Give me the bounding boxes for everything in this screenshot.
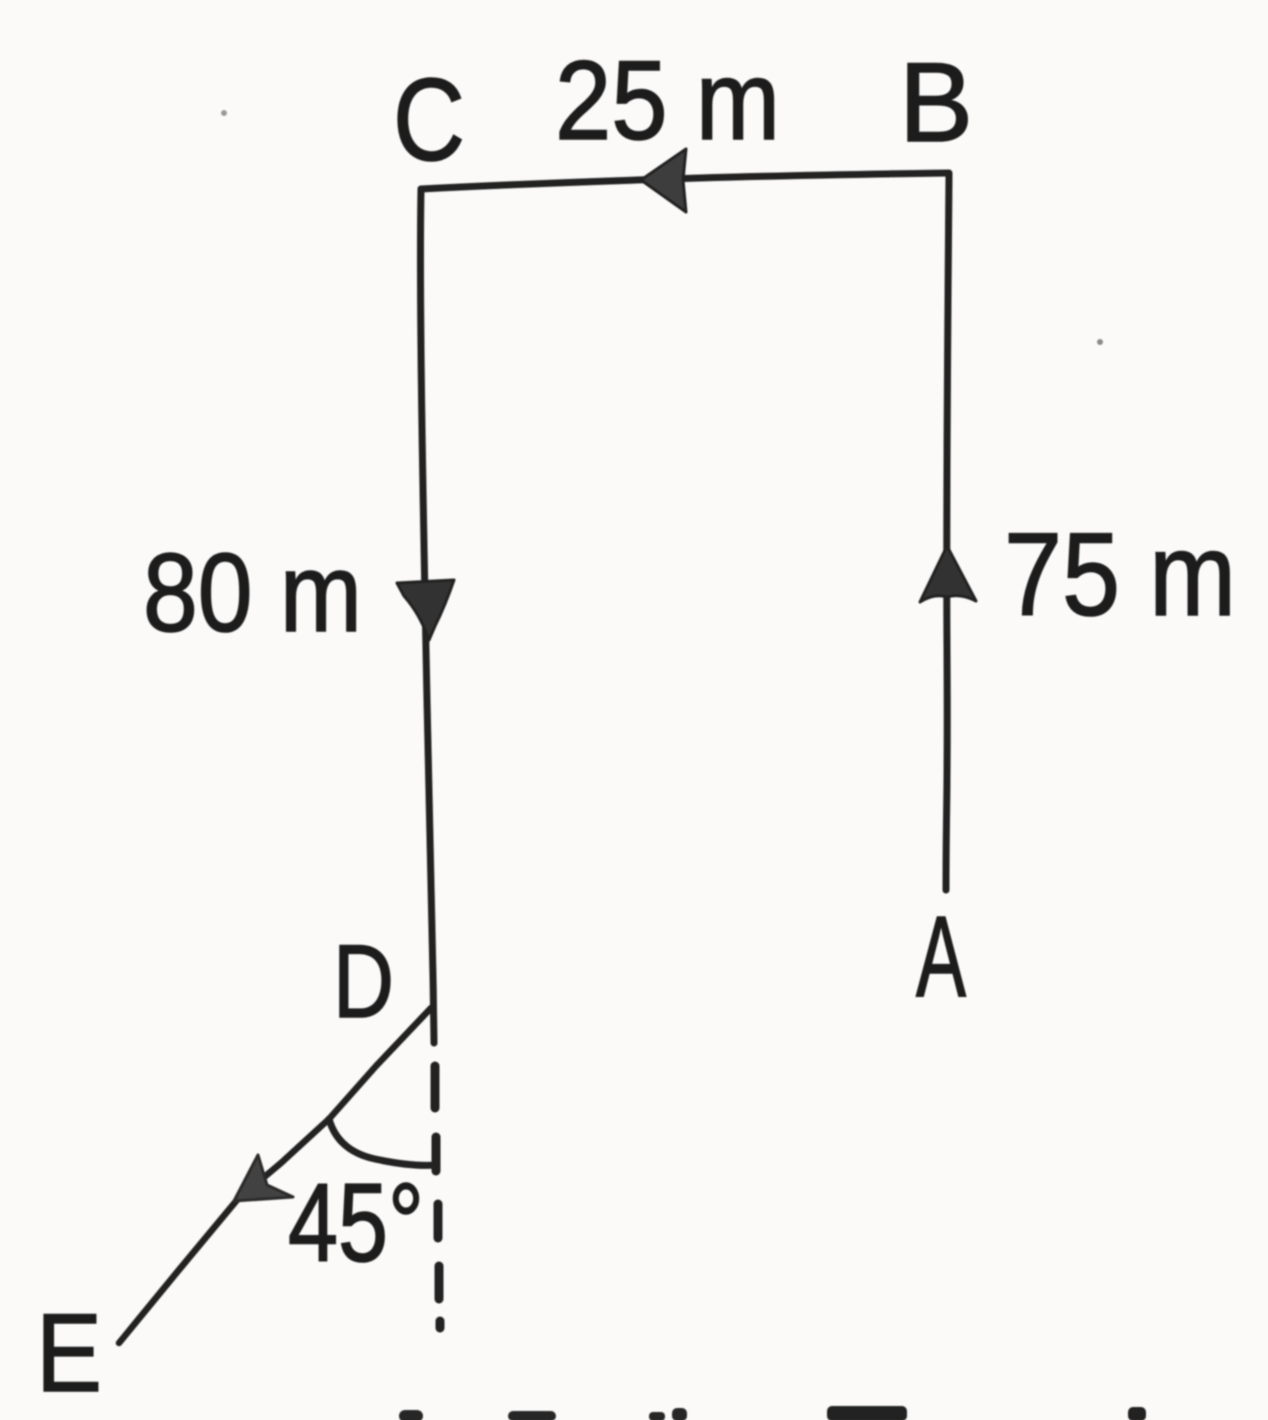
svg-text:D: D: [333, 924, 394, 1040]
svg-text:25 m: 25 m: [555, 38, 780, 163]
svg-text:75 m: 75 m: [1004, 509, 1236, 641]
svg-text:E: E: [36, 1291, 102, 1415]
svg-text:A: A: [916, 893, 966, 1021]
svg-text:80 m: 80 m: [143, 531, 362, 655]
svg-text:45°: 45°: [288, 1161, 424, 1285]
svg-text:B: B: [899, 40, 973, 165]
svg-text:C: C: [393, 54, 465, 185]
